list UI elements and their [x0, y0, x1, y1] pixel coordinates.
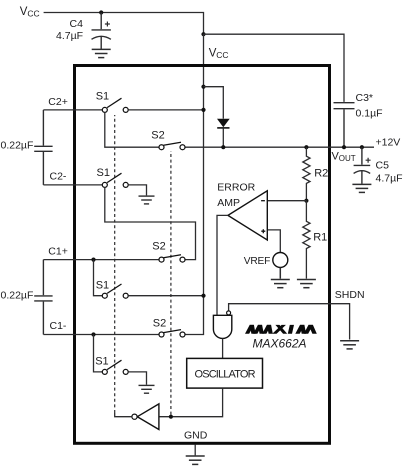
ground (C5): [352, 184, 371, 192]
ground (S1b): [139, 196, 155, 204]
ground (SHDN): [340, 341, 359, 349]
label VCC (supply, top left): [20, 6, 40, 18]
node C1+/S1c: [91, 258, 95, 262]
svg-text:4.7µF: 4.7µF: [376, 172, 403, 184]
wire C1+ pin: [43, 259, 158, 261]
capacitor C2 0.22uF: [34, 110, 52, 185]
switch S1 (C2+ to VCC): [102, 98, 128, 112]
switch S2 (C1- row): [159, 330, 185, 337]
node VCC branch (to C3): [201, 32, 205, 36]
svg-text:AMP: AMP: [217, 197, 240, 209]
wire inverter output: [115, 413, 132, 417]
inverting bubble on SHDN input: [227, 311, 231, 315]
resistor R2: [303, 147, 310, 201]
wire VOUT line: [185, 146, 374, 148]
wire inverting input: [267, 200, 306, 202]
IC MAX662A outline: [75, 66, 330, 444]
node S1a/rail: [201, 108, 205, 112]
svg-text:MAX662A: MAX662A: [253, 337, 307, 351]
svg-text:C2-: C2-: [50, 171, 67, 183]
wire noninverting input: [267, 230, 280, 253]
ground (R1): [297, 280, 316, 288]
switch S2 (C2+ to VOUT): [159, 142, 185, 149]
switch S2 (C1+ row): [159, 255, 185, 262]
node VCC/C4 junction: [99, 10, 103, 14]
svg-text:ERROR: ERROR: [217, 182, 255, 194]
svg-text:CC: CC: [27, 8, 39, 18]
wire C2+ to S2a: [105, 112, 159, 147]
svg-text:S2: S2: [153, 318, 166, 330]
inverter (S1 drive): [132, 404, 159, 430]
wire C1+ to S1c: [94, 260, 103, 296]
svg-text:CC: CC: [216, 50, 228, 60]
svg-text:0.22µF: 0.22µF: [1, 140, 34, 152]
oscillator block: [187, 358, 263, 388]
dashed control line S1: [114, 115, 116, 413]
svg-text:C5: C5: [376, 159, 390, 171]
ground (S1d): [139, 385, 155, 393]
svg-text:GND: GND: [184, 429, 208, 441]
node C1-/S1d: [91, 332, 95, 336]
wire gate to oscillator: [222, 339, 224, 359]
capacitor C1 0.22uF: [34, 260, 52, 335]
capacitor C4 4.7uF (polarized): [92, 13, 111, 50]
node R2/VOUT: [304, 145, 308, 149]
svg-text:C4: C4: [70, 18, 84, 30]
ground (GND pin): [186, 456, 205, 464]
svg-text:OUT: OUT: [339, 154, 356, 163]
wire S1d to ground: [128, 372, 146, 385]
svg-text:0.22µF: 0.22µF: [1, 290, 34, 302]
svg-text:R1: R1: [313, 231, 327, 243]
voltage reference VREF: [273, 253, 288, 268]
ground (VREF): [271, 268, 290, 288]
wire SHDN: [229, 304, 350, 340]
svg-text:C1-: C1-: [50, 320, 67, 332]
svg-text:C1+: C1+: [48, 246, 68, 258]
node S1c/rail: [201, 294, 205, 298]
maxim logo: [245, 325, 317, 334]
label VOUT (pin): [332, 151, 356, 163]
svg-text:S2: S2: [151, 130, 164, 142]
capacitor C5 4.7uF (polarized): [354, 147, 371, 184]
wire GND pin: [194, 444, 196, 455]
wire C1- pin: [43, 334, 158, 336]
svg-text:C3*: C3*: [356, 92, 374, 104]
wire VCC to C3: [204, 34, 345, 102]
node C5/VOUT: [360, 145, 364, 149]
node C3/VOUT: [342, 145, 346, 149]
wire C2- pin: [43, 184, 102, 186]
wire oscillator output to inverter: [159, 388, 223, 417]
wire C1- to S1d: [94, 335, 103, 372]
wire error amp output: [217, 215, 228, 315]
node rail-diode branch: [201, 85, 205, 89]
svg-text:0.1µF: 0.1µF: [356, 108, 383, 120]
svg-text:R2: R2: [314, 167, 328, 179]
svg-text:S1: S1: [95, 355, 108, 367]
node diode/VOUT: [221, 145, 225, 149]
ground (C4): [92, 49, 111, 57]
wire S1a to VCC rail: [128, 109, 203, 111]
wire diode branch: [204, 87, 224, 119]
dashed control line S2: [170, 151, 172, 415]
svg-text:4.7µF: 4.7µF: [56, 30, 83, 42]
wire VCC input (top rail): [44, 13, 204, 35]
switch S1 (C1- to ground): [102, 360, 128, 374]
node oscillator/S2 control: [169, 415, 173, 419]
wire S1b to ground: [128, 185, 146, 196]
svg-text:SHDN: SHDN: [335, 289, 365, 301]
AND gate (oscillator enable): [213, 311, 231, 339]
svg-text:S2: S2: [152, 241, 165, 253]
diode D1: [217, 119, 230, 148]
svg-text:C2+: C2+: [48, 96, 68, 108]
node R2/R1 (feedback): [304, 199, 308, 203]
wire C2+ pin: [43, 109, 102, 111]
svg-text:+12V: +12V: [376, 137, 401, 149]
capacitor C3 0.1uF: [334, 103, 355, 148]
svg-text:S1: S1: [96, 280, 109, 292]
svg-text:VREF: VREF: [244, 256, 270, 267]
switch S1 (C1+ to VCC): [102, 284, 128, 298]
wire VCC rail (inside IC, to S2 row4): [184, 34, 203, 334]
label VCC (pin): [209, 48, 229, 60]
svg-text:S1: S1: [97, 167, 110, 179]
switch S1 (C2- to stack): [102, 173, 128, 187]
svg-text:S1: S1: [96, 91, 109, 103]
op-amp U1 error amplifier: [228, 191, 267, 240]
svg-text:OSCILLATOR: OSCILLATOR: [195, 369, 256, 381]
resistor R1: [303, 201, 310, 279]
wire S1c to VCC rail: [128, 295, 203, 297]
wire S1b to S2c (stack link): [105, 187, 196, 259]
